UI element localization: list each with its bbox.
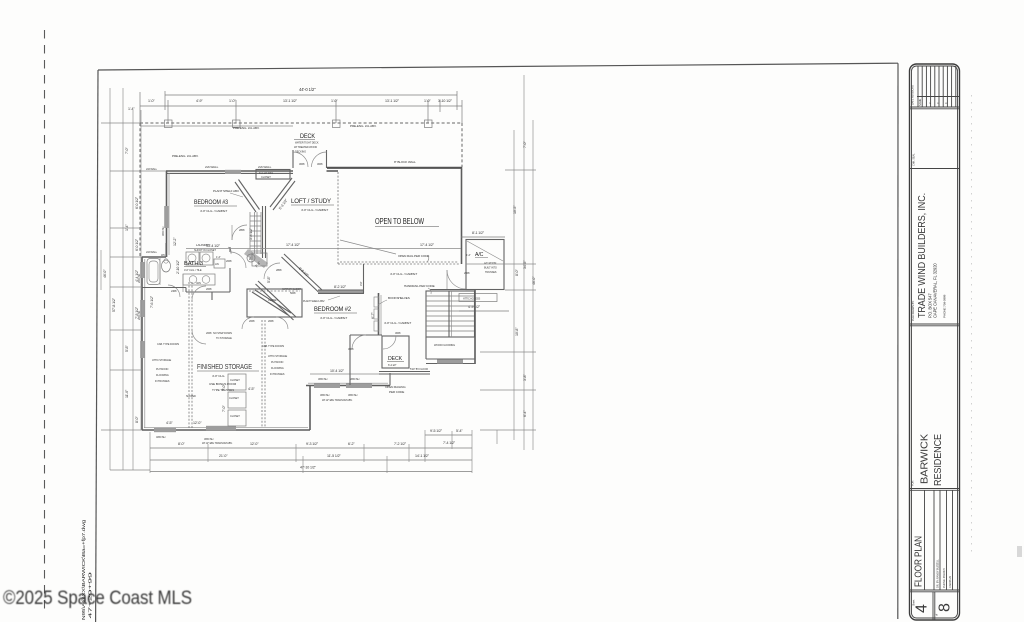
svg-text:1'-0": 1'-0" [331,99,338,103]
svg-text:2x6 WALL: 2x6 WALL [258,165,272,169]
svg-text:DECK: DECK [388,356,403,362]
svg-text:3050 SH: 3050 SH [350,377,360,381]
svg-text:PRE-ENG. LVL ABV.: PRE-ENG. LVL ABV. [172,154,199,158]
svg-text:3050 SH: 3050 SH [318,377,328,381]
svg-text:7'-4 1/2": 7'-4 1/2" [443,441,456,445]
svg-text:10'-5": 10'-5" [513,205,517,214]
svg-text:8'-0": 8'-0" [135,416,139,423]
svg-text:PLAN DRAWN BY:: PLAN DRAWN BY: [911,300,915,321]
svg-text:10'-4 1/2": 10'-4 1/2" [330,369,345,373]
svg-text:2068: 2068 [268,319,274,323]
svg-text:BEDROOM #2: BEDROOM #2 [314,306,351,313]
svg-text:BEDROOM #3: BEDROOM #3 [194,199,228,206]
svg-text:1'-4": 1'-4" [466,253,471,257]
svg-text:1'-4": 1'-4" [128,107,135,111]
svg-text:VAN: VAN [196,281,201,285]
svg-text:2468: 2468 [171,289,177,293]
svg-text:PLYWOOD: PLYWOOD [156,367,168,371]
svg-text:7'-0": 7'-0" [222,384,226,391]
svg-text:6'-4": 6'-4" [523,410,527,417]
svg-text:CLOSET: CLOSET [230,414,240,418]
svg-text:3050 SH: 3050 SH [320,393,330,397]
svg-text:CHK. SEAL: CHK. SEAL [912,153,916,166]
svg-text:3050 SH: 3050 SH [204,437,214,441]
svg-text:5'-8": 5'-8" [125,345,129,352]
svg-text:BOOKSHELVES: BOOKSHELVES [388,296,410,300]
svg-text:6'-0 1/2" R&S: 6'-0 1/2" R&S [259,171,273,175]
svg-text:47'-10 1/2": 47'-10 1/2" [300,466,317,470]
svg-text:3050 SH: 3050 SH [348,393,358,397]
svg-text:1'-0": 1'-0" [229,99,236,103]
svg-text:©2025 Space Coast MLS: ©2025 Space Coast MLS [3,588,192,609]
svg-text:57'-8 1/2": 57'-8 1/2" [112,297,116,312]
svg-text:CLOSET: CLOSET [261,175,271,179]
svg-text:RESIDENCE: RESIDENCE [933,434,944,486]
svg-text:ATTIC STORAGE: ATTIC STORAGE [152,358,171,362]
svg-text:4: 4 [914,604,931,613]
svg-text:DR. BY: RANDY BUZZELL: DR. BY: RANDY BUZZELL [936,559,940,588]
svg-text:BATH 3: BATH 3 [184,261,203,267]
svg-text:1'-0": 1'-0" [148,99,155,103]
svg-text:7'-0": 7'-0" [125,147,129,154]
svg-text:TRUSSES: TRUSSES [485,270,497,274]
svg-text:OPEN RAILING: OPEN RAILING [385,385,406,389]
svg-text:4'-0" CLG. / TILE: 4'-0" CLG. / TILE [184,268,202,272]
svg-text:2068: 2068 [206,331,212,335]
svg-text:21'-0": 21'-0" [219,454,228,458]
svg-text:1'-4": 1'-4" [125,224,129,231]
svg-text:3'-8": 3'-8" [523,374,527,381]
svg-text:6'-4 1/2": 6'-4 1/2" [388,363,397,367]
svg-text:46'-0": 46'-0" [532,276,536,285]
svg-text:CLOSET: CLOSET [229,396,239,400]
svg-text:CAPE CANAVERAL, FL 32920: CAPE CANAVERAL, FL 32920 [933,263,938,318]
svg-text:PHONE: 453-6470: PHONE: 453-6470 [942,567,946,588]
svg-text:2x6 WALL: 2x6 WALL [205,165,219,169]
svg-text:PRE-ENG. LVL ABV.: PRE-ENG. LVL ABV. [233,126,260,130]
svg-text:4050 SH: 4050 SH [156,435,166,439]
svg-text:4'-5": 4'-5" [166,421,173,425]
svg-text:11'-5 1/2": 11'-5 1/2" [327,454,342,458]
svg-text:4'-4 1/2": 4'-4 1/2" [135,269,139,282]
svg-text:2068: 2068 [226,259,232,263]
svg-text:2068: 2068 [249,319,255,323]
svg-text:4'-0" CLG.: 4'-0" CLG. [212,374,225,378]
svg-text:7'-0": 7'-0" [523,141,527,148]
svg-text:CAB. TYPE DOORS: CAB. TYPE DOORS [157,342,179,346]
svg-text:12'-2": 12'-2" [173,237,177,246]
svg-text:OPEN TO BELOW: OPEN TO BELOW [375,217,424,226]
svg-text:4'-0" CLG. / CARPET: 4'-0" CLG. / CARPET [390,272,417,276]
svg-text:44'-0 1/2": 44'-0 1/2" [299,87,316,92]
svg-text:W/ 12" EBL TRANSOM ABV.: W/ 12" EBL TRANSOM ABV. [322,398,353,402]
svg-text:W/ TREATED WOOD: W/ TREATED WOOD [294,145,317,149]
svg-text:6'-7": 6'-7" [371,312,375,319]
svg-text:4'-0" CLG. / CARPET: 4'-0" CLG. / CARPET [384,321,411,325]
svg-text:TRADE WIND BUILDERS, INC.: TRADE WIND BUILDERS, INC. [917,193,928,318]
svg-text:ATTIC ACCESS: ATTIC ACCESS [463,297,480,301]
svg-text:12'-0": 12'-0" [250,442,259,446]
svg-text:7'-8 1/2": 7'-8 1/2" [135,306,139,319]
svg-text:A/C ROOM: A/C ROOM [484,261,496,265]
svg-text:2x6 WALL: 2x6 WALL [146,250,158,254]
svg-text:WATER TIGHT DECK: WATER TIGHT DECK [295,141,319,145]
svg-text:7'-0": 7'-0" [222,405,226,412]
svg-text:2868: 2868 [464,271,470,275]
svg-text:34'-5": 34'-5" [523,260,527,269]
svg-text:IN TRUSSES: IN TRUSSES [270,372,285,376]
svg-text:4'-0" CLG. / CARPET: 4'-0" CLG. / CARPET [301,208,328,212]
svg-text:5'-4": 5'-4" [456,429,463,433]
svg-text:46'-0": 46'-0" [103,269,107,278]
svg-text:3068: 3068 [299,162,305,166]
svg-text:2x6 WALL: 2x6 WALL [146,167,158,171]
svg-text:SLOPED: SLOPED [186,394,196,398]
svg-text:2868: 2868 [276,268,282,272]
svg-text:8: 8 [937,603,954,612]
svg-text:PLANT SHELF ABV.: PLANT SHELF ABV. [213,189,240,193]
svg-text:7'-6 1/2": 7'-6 1/2" [150,295,154,308]
svg-text:13'-1 1/2": 13'-1 1/2" [283,99,298,103]
svg-text:6'-0 1/2": 6'-0 1/2" [135,196,139,209]
svg-text:PER CODE: PER CODE [389,390,404,394]
svg-text:NO STEP DOWN: NO STEP DOWN [213,331,232,335]
svg-text:DECK: DECK [300,133,316,140]
svg-text:12'-0": 12'-0" [193,421,202,425]
svg-text:PHONE 799-0888: PHONE 799-0888 [943,294,947,318]
svg-text:IN TRUSSES: IN TRUSSES [155,379,170,383]
svg-text:6'-2": 6'-2" [348,442,355,446]
svg-text:BARWICK: BARWICK [920,434,931,484]
svg-text:FLOORING: FLOORING [271,366,284,370]
svg-text:FINISHED STORAGE: FINISHED STORAGE [197,362,252,371]
svg-text:BUILT INTO: BUILT INTO [484,266,497,270]
svg-text:14'-1 1/2": 14'-1 1/2" [415,454,430,458]
svg-text:3050 SH: 3050 SH [161,226,165,236]
svg-text:WC: WC [161,253,165,257]
svg-text:6'-0 1/2": 6'-0 1/2" [135,238,139,251]
svg-text:OPEN RAIL PER CODE: OPEN RAIL PER CODE [398,254,429,258]
svg-text:DECKING: DECKING [295,150,306,154]
svg-text:3068: 3068 [395,331,401,335]
svg-text:2'-10 1/2": 2'-10 1/2" [176,259,180,274]
svg-text:DATE REVISIONS: DATE REVISIONS [911,85,915,105]
svg-text:5068: 5068 [290,291,296,295]
svg-text:LOFT / STUDY: LOFT / STUDY [291,198,332,205]
svg-text:FLOORING: FLOORING [156,373,169,377]
svg-text:5'-8": 5'-8" [267,276,271,283]
svg-text:3068: 3068 [348,347,354,351]
svg-text:1'-4": 1'-4" [216,255,221,259]
svg-text:4'-9": 4'-9" [196,99,203,103]
svg-text:A/C: A/C [475,252,484,258]
svg-text:PRE-ENG. LVL ABV.: PRE-ENG. LVL ABV. [350,124,377,128]
svg-text:3068: 3068 [317,162,323,166]
svg-text:HANDRAIL PER CODE: HANDRAIL PER CODE [404,284,435,288]
svg-text:7'-2 1/2": 7'-2 1/2" [394,442,407,446]
svg-text:4'-0" CLG. / CARPET: 4'-0" CLG. / CARPET [320,316,347,320]
svg-text:NAME: NAME [918,99,922,106]
svg-text:FLOOR PLAN: FLOOR PLAN [913,536,925,587]
svg-text:13'-4 1/2": 13'-4 1/2" [206,244,221,248]
svg-text:1'-0": 1'-0" [424,99,431,103]
svg-text:PLANT SHELF ABV.: PLANT SHELF ABV. [303,299,325,303]
svg-text:4'-0" CLG. / CARPET: 4'-0" CLG. / CARPET [200,209,227,213]
svg-text:10'-8": 10'-8" [515,327,519,336]
svg-text:11'-0": 11'-0" [125,389,129,398]
svg-text:3'-6": 3'-6" [359,281,363,286]
svg-text:8'-1 1/2": 8'-1 1/2" [472,231,485,235]
svg-text:2068: 2068 [206,287,212,291]
svg-text:4'-5": 4'-5" [248,387,255,391]
svg-text:8'-0": 8'-0" [178,442,185,446]
svg-text:ATTIC STORAGE: ATTIC STORAGE [268,354,287,358]
svg-text:3'-10 1/2": 3'-10 1/2" [438,99,453,103]
svg-text:8'-0": 8'-0" [515,269,519,276]
svg-text:LIN: LIN [215,262,219,266]
svg-text:CAB. TYPE DOORS: CAB. TYPE DOORS [262,344,284,348]
svg-text:9'-5 1/2": 9'-5 1/2" [430,429,443,433]
svg-text:13'-1 1/2": 13'-1 1/2" [385,99,400,103]
svg-text:17'-4 1/2": 17'-4 1/2" [420,243,435,247]
svg-text:W/ 12" EBL TRANSOM ABV.: W/ 12" EBL TRANSOM ABV. [202,441,233,445]
svg-text:PLYWOOD: PLYWOOD [271,360,283,364]
svg-text:8" BLOCK WALL: 8" BLOCK WALL [394,160,416,164]
svg-text:WOOD FLOORING: WOOD FLOORING [434,343,455,347]
svg-text:5'-8 1/2": 5'-8 1/2" [249,227,253,240]
svg-text:FOR:: FOR: [911,480,915,486]
svg-text:17'-4 1/2": 17'-4 1/2" [286,243,301,247]
svg-text:CAD/PLUS: CAD/PLUS [948,576,952,588]
svg-text:TO STORAGE: TO STORAGE [216,336,232,340]
svg-text:5'10" BY FLOOR: 5'10" BY FLOOR [410,367,428,371]
svg-text:2868: 2868 [239,228,245,232]
svg-text:9'-3 1/2": 9'-3 1/2" [306,442,319,446]
svg-text:CLOSET: CLOSET [230,378,240,382]
svg-text:8'-2 1/2": 8'-2 1/2" [334,285,347,289]
svg-text:CLOSET: CLOSET [268,298,278,302]
